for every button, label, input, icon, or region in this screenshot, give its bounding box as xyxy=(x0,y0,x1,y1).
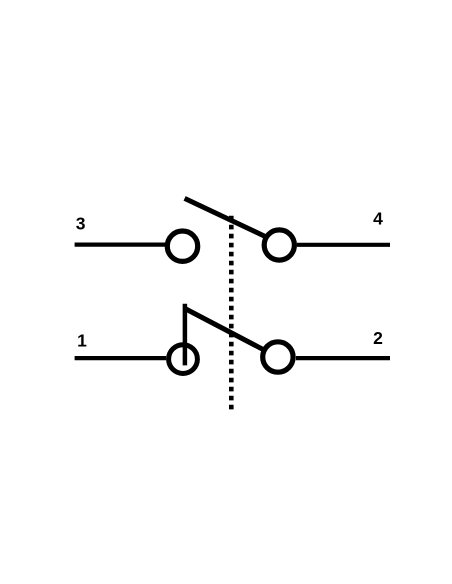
contact circle pin 3 (pole A left) xyxy=(167,231,197,261)
mechanical linkage (dotted gang line) xyxy=(229,216,234,410)
contact circle pin 4 (pole A right) xyxy=(264,230,294,260)
wire: terminal 2 lead xyxy=(296,356,390,360)
contact circle pin 2 (pole B right) xyxy=(263,342,293,372)
svg-text:4: 4 xyxy=(373,209,383,229)
wire: terminal 3 lead xyxy=(75,243,166,247)
svg-text:3: 3 xyxy=(76,213,86,233)
svg-text:2: 2 xyxy=(373,328,383,348)
wire: terminal 1 lead xyxy=(75,356,167,360)
contact circle pin 1 (pole B left) xyxy=(169,345,198,374)
switch lever pole B diagonal blade xyxy=(185,309,264,350)
switch lever pole A (open blade) xyxy=(185,198,266,236)
svg-text:1: 1 xyxy=(77,331,87,351)
wire: terminal 4 lead xyxy=(297,243,390,247)
switch lever pole B vertical arm xyxy=(183,304,188,366)
